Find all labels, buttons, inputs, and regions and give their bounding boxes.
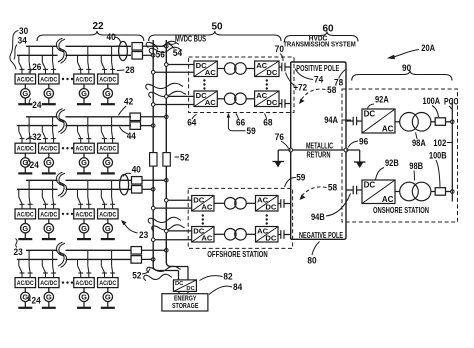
converter DC/AC A bottom station [192,195,214,211]
wind unit row4 col1 switchgear [19,250,33,277]
wire negative to 94B capacitor [346,189,353,191]
svg-text:AC/DC: AC/DC [76,280,93,287]
svg-text:98B: 98B [409,161,423,172]
wire right bus to converter row2 upper input [166,95,194,97]
svg-text:68: 68 [263,117,272,128]
converter DC/AC 92A [362,109,395,133]
svg-text:70: 70 [275,44,284,55]
label 26 [29,62,42,73]
label MVDC BUS [169,34,207,45]
wire 92B to transformer 98B [395,191,400,193]
label 82 [200,272,233,283]
svg-text:METALLIC: METALLIC [306,142,333,151]
node converter64 upper input on right bus [165,63,169,67]
vertical rect 52 on right bus [163,153,170,167]
ground row3 col4 [101,233,115,239]
label METALLIC [306,142,333,151]
label 98A [412,133,426,150]
brace 50 over MVDC [149,31,281,41]
svg-text:42: 42 [124,97,133,108]
svg-text:AC/DC: AC/DC [99,146,116,153]
ellipsis dots row 1 [62,78,73,80]
wire DC stack vertical offshore [290,62,292,239]
transformer A bottom station [225,198,247,210]
feeder row 3 bus break mark [56,172,66,197]
wire row2 upper square to right bus [141,116,167,118]
svg-text:AC/DC: AC/DC [40,146,57,153]
ellipsis dots row 3 [62,213,73,215]
ground row2 col1 [18,167,32,173]
cable wave marks mid MVDC bus [146,83,186,97]
converter AC/DC B bottom station [256,226,279,242]
wire left bus to converter B lower input [153,239,192,241]
breaker square row1 upper [132,43,143,51]
label 23 right arrow [121,220,148,241]
feeder row 1 bus break mark [56,38,66,63]
svg-text:34: 34 [18,35,28,46]
label 32 [26,132,41,143]
svg-text:40: 40 [107,32,116,43]
label 100B [429,150,447,187]
svg-text:59: 59 [247,126,256,137]
generator G row4 col1 [21,288,30,302]
svg-text:84: 84 [233,282,243,293]
wire 100A to PCC [446,121,453,123]
svg-text:AC/DC: AC/DC [76,146,93,153]
generator G row2 col1 [21,153,30,167]
svg-text:90: 90 [402,63,411,74]
svg-text:82: 82 [223,272,232,283]
svg-text:94A: 94A [324,115,338,126]
dashed box onshore station 90 [342,89,458,222]
svg-text:+72: +72 [294,83,308,94]
svg-text:AC: AC [201,233,212,242]
label 59 top [227,113,256,137]
node row2 on left bus [151,124,155,128]
svg-text:AC/DC: AC/DC [17,211,34,218]
label 70 [275,44,284,61]
wire transformer A to AC/DC [246,202,255,204]
cable wave marks top of MVDC bus [146,41,182,53]
label 78 [334,70,346,89]
generator G row3 col2 [44,219,53,233]
wind unit row4 col4 switchgear [101,250,115,277]
svg-text:20A: 20A [421,43,435,54]
label 52 upper [175,153,190,164]
ellipsis dots row 2 [62,147,73,149]
svg-text:G: G [81,158,87,167]
label 90 [402,63,411,74]
cable wave marks at bus elbows [144,266,181,280]
converter DC/AC row2 [194,91,217,107]
wire feeder row 4 lower bus [17,258,131,260]
wire row3 upper square to right bus [143,179,167,181]
wire row1 upper square to right bus [143,45,167,47]
svg-text:56: 56 [156,50,165,61]
generator G row1 col1 [21,84,30,98]
transformer B bottom station [225,229,247,241]
converter AC/DC row3 col1 [15,209,36,219]
wind unit row4 col2 switchgear [42,250,56,277]
breaker square row4 lower [131,256,142,264]
svg-text:100B: 100B [429,150,447,161]
svg-text:DC: DC [266,98,277,107]
node converter row2 lower input [151,103,155,107]
transformer row2 [224,93,246,105]
wind unit row2 col2 switchgear [42,117,56,143]
svg-text:G: G [46,293,52,302]
label 34 [14,35,27,59]
generator G row1 col2 [44,84,53,98]
wire right bus elbow to DC/DC [171,267,188,280]
svg-text:80: 80 [307,255,316,266]
converter DC/DC 82 [173,280,196,292]
MVDC bus right vertical 54 [166,40,171,267]
svg-text:23: 23 [14,247,23,258]
generator G row3 col3 [79,219,88,233]
generator G row2 col4 [103,153,112,167]
svg-text:AC: AC [382,195,394,204]
converter AC/DC row2 [255,91,279,107]
capacitor output B bottom [278,230,284,239]
converter AC/DC row3 col2 [39,209,60,219]
ground row1 col1 [18,98,32,104]
wire transformer 66 to converter 68 [246,68,254,70]
wire feeder row 2 upper bus [26,116,131,118]
wind unit row3 col2 switchgear [42,180,56,209]
converter AC/DC row3 col4 [98,209,119,219]
ground row1 col2 [42,98,56,104]
brace 90 over onshore [352,71,452,81]
svg-text:G: G [105,158,111,167]
label RETURN [307,151,331,160]
wire transformer B to AC/DC [246,233,255,235]
label 66 [236,114,245,129]
wire 92A to transformer 98A [395,121,400,123]
label 92A [368,95,389,109]
svg-text:52: 52 [132,271,141,282]
svg-text:24: 24 [32,100,42,111]
generator G row3 col1 [21,219,30,233]
negative pole line [291,192,346,239]
label 23 left [14,239,23,258]
label ONSHORE STATION [373,205,429,215]
label 30 [10,26,28,69]
converter AC/DC row3 col3 [74,209,95,219]
label NEGATIVE POLE [299,231,343,240]
node row2 on right bus [165,115,169,119]
brace 60 over HVDC [285,32,359,42]
generator G row2 col2 [44,153,53,167]
converter AC/DC row1 col4 [98,74,119,84]
wire feeder row 2 lower bus [17,125,131,127]
svg-text:94B: 94B [311,212,325,223]
ground row4 col3 [77,302,91,308]
svg-text:G: G [22,224,28,233]
label 68 [263,114,272,129]
label 28 [117,65,135,76]
ground row4 col2 [42,302,56,308]
breaker square 42 row2 upper [130,113,141,121]
wire onshore vertical mid [345,148,347,192]
svg-text:AC/DC: AC/DC [99,280,116,287]
svg-text:DC: DC [265,233,276,242]
converter AC/DC A bottom station [256,195,279,211]
label 42 [119,97,134,116]
svg-text:DC: DC [265,202,276,211]
svg-text:58: 58 [328,183,337,194]
transformer 98A [400,113,431,132]
label 58 lower [300,183,338,201]
svg-text:AC: AC [205,68,216,77]
node converter B lower input [151,238,155,242]
svg-text:44: 44 [127,131,137,142]
wire 98A to 100A [431,121,435,123]
svg-text:G: G [46,224,52,233]
svg-text:AC/DC: AC/DC [99,211,116,218]
breaker square row4 upper [131,247,142,255]
capacitor 94A [353,117,362,126]
svg-text:28: 28 [125,65,134,76]
svg-text:52: 52 [180,153,189,164]
svg-text:PCC: PCC [444,96,459,106]
svg-text:RETURN: RETURN [307,151,331,160]
label POSITIVE POLE [296,64,339,73]
svg-text:59: 59 [296,173,305,184]
ground row2 col4 [101,167,115,173]
wire left bus to converter 64 lower input [153,71,194,73]
ellipsis dots offshore top station [203,79,268,89]
converter DC/AC B bottom station [192,226,214,242]
converter AC/DC row4 col2 [39,278,60,288]
breaker square row1 lower [132,52,143,60]
wire positive pole to 94A capacitor [346,120,353,122]
label HVDC [309,33,328,42]
node row1 on right bus [165,45,169,49]
svg-text:POSITIVE POLE: POSITIVE POLE [296,64,339,73]
svg-text:AC/DC: AC/DC [17,146,34,153]
wire left bus to converter A lower input [153,207,192,209]
svg-text:26: 26 [32,62,41,73]
wire transformer row2 to AC/DC [246,98,254,100]
label 94A [324,115,351,126]
label 44 [120,127,137,142]
svg-text:DC: DC [266,68,277,77]
svg-text:58: 58 [327,85,336,96]
wire row4 lower square to left bus [142,258,154,260]
wind unit row4 col3 switchgear [78,250,92,277]
svg-text:G: G [105,293,111,302]
transformer 98B [400,182,431,201]
svg-text:102: 102 [433,138,446,149]
wire feeder row 3 upper bus [26,179,131,181]
svg-text:100A: 100A [423,96,441,107]
capacitor output row2 [279,99,285,108]
svg-text:G: G [81,224,87,233]
converter AC/DC row2 col2 [39,143,60,153]
svg-text:66: 66 [236,117,245,128]
breaker square row3 upper [132,177,143,185]
label 20A [387,43,435,59]
svg-text:AC/DC: AC/DC [40,76,57,83]
node converter A lower input [151,206,155,210]
svg-text:76: 76 [275,132,284,143]
converter AC/DC row1 col2 [39,74,60,84]
svg-text:DC: DC [175,281,184,287]
dashed box offshore station (bottom) [188,188,292,248]
ground row3 col3 [77,233,91,239]
wire row4 upper square to right bus [142,249,167,251]
wire row1 lower square to left bus [143,54,154,56]
feeder row 4 bus break mark [56,242,66,267]
wire left bus to converter row2 lower input [153,104,194,106]
svg-text:AC/DC: AC/DC [17,280,34,287]
ground 76 [273,150,291,168]
ellipsis dots row 4 [62,281,73,283]
generator G row1 col3 [79,84,88,98]
node 100B on PCC [451,190,455,194]
breaker square row3 lower [132,186,143,194]
svg-text:AC/DC: AC/DC [76,76,93,83]
breaker square 44 row2 lower [130,122,141,130]
cable wave marks lower MVDC bus [148,217,184,231]
wind unit row2 col3 switchgear [78,117,92,143]
converter DC/AC 92B [362,180,395,204]
svg-text:AC/DC: AC/DC [40,280,57,287]
wire feeder row 1 upper bus [26,45,131,47]
wire B to transformer [214,233,225,235]
svg-text:24: 24 [30,160,40,171]
svg-text:32: 32 [32,132,41,143]
svg-text:92B: 92B [385,158,399,169]
label 54 [168,44,183,60]
label TRANSMISSION SYSTEM [283,39,356,48]
wire left bus elbow to DC/DC [158,271,179,280]
svg-text:24: 24 [32,296,42,307]
ground row3 col2 [42,233,56,239]
svg-text:G: G [81,293,87,302]
svg-text:AC/DC: AC/DC [17,76,34,83]
svg-text:ONSHORE STATION: ONSHORE STATION [373,205,429,215]
label 80 [307,242,319,267]
svg-text:G: G [105,224,111,233]
wire feeder row 3 lower bus [17,188,131,190]
wire feeder row 1 lower bus [17,54,131,56]
svg-text:G: G [81,89,87,98]
breaker 100B [435,188,445,196]
wire row2 to transformer [217,98,224,100]
wire 100B to PCC [446,191,453,193]
svg-text:96: 96 [359,137,368,148]
wire right bus to converter A upper input [166,199,191,201]
wind unit row2 col1 switchgear [19,117,33,143]
svg-text:TRANSMISSION SYSTEM: TRANSMISSION SYSTEM [283,39,356,48]
wind unit row3 col1 switchgear [19,180,33,209]
label 72 [286,73,308,94]
ground row2 col2 [42,167,56,173]
ground row2 col3 [77,167,91,173]
converter AC/DC 68 [255,61,279,77]
label 58 top [299,85,336,104]
converter AC/DC row1 col3 [74,74,95,84]
svg-text:G: G [46,158,52,167]
label 24 row2 [27,160,39,171]
svg-text:22: 22 [92,21,104,32]
label PCC [444,96,459,109]
generator G row2 col3 [79,153,88,167]
generator G row1 col4 [103,84,112,98]
node row1 on left bus [151,54,155,58]
label 60 [322,24,334,35]
ground row1 col4 [101,98,115,104]
wire DC/DC to energy storage [179,291,188,293]
wire capacitor row1 to DC pole bus [285,66,291,68]
label STORAGE [172,301,199,310]
label OFFSHORE STATION [207,249,268,259]
ground row4 col1 [18,302,32,308]
capacitor 72 output row1 [279,63,285,72]
node converter A upper input [165,199,169,203]
node converter64 lower input on left bus [151,70,155,74]
label 76 [275,132,289,149]
wire 64 to transformer 66 [217,68,224,70]
converter AC/DC row2 col4 [98,143,119,153]
svg-text:23: 23 [139,230,148,241]
svg-text:54: 54 [173,48,183,59]
node row3 on left bus [151,188,155,192]
svg-text:50: 50 [211,22,223,33]
node metallic return offshore [289,148,293,152]
svg-text:DC: DC [364,109,376,118]
svg-text:AC/DC: AC/DC [76,211,93,218]
generator G row3 col4 [103,219,112,233]
PCC line [451,100,453,202]
generator G row4 col3 [79,288,88,302]
label ENERGY [174,294,197,303]
label 59 lower [285,173,306,188]
label 98B [409,161,423,181]
ground row3 col1 [18,233,32,239]
node converter row2 upper input [165,95,169,99]
svg-text:AC: AC [201,202,212,211]
breaker 100A [435,118,445,126]
converter AC/DC row4 col3 [74,278,95,288]
svg-text:AC: AC [382,124,394,133]
wind unit row1 col2 switchgear [42,46,56,74]
wire right bus to converter B upper input [166,230,191,232]
MVDC bus left vertical 56 [153,40,158,271]
svg-text:G: G [105,89,111,98]
label 84 [209,282,243,295]
svg-text:NEGATIVE POLE: NEGATIVE POLE [299,231,343,240]
brace 22 over wind feeder [37,31,144,41]
converter AC/DC row2 col3 [74,143,95,153]
wire row2 lower square to left bus [141,125,154,127]
ground row1 col3 [77,98,91,104]
label 96 [348,137,368,148]
svg-text:AC/DC: AC/DC [40,211,57,218]
wind unit row1 col1 switchgear [19,46,33,74]
ground 96 [346,150,366,168]
ground row4 col4 [101,302,115,308]
svg-text:DC: DC [364,180,376,189]
svg-text:40: 40 [132,165,141,176]
node row3 on right bus [165,179,169,183]
converter DC/AC 64 [194,61,217,77]
wire feeder row 4 upper bus [26,249,131,251]
wire capacitor row2 to DC pole bus [285,103,291,105]
wind unit row3 col3 switchgear [78,180,92,209]
